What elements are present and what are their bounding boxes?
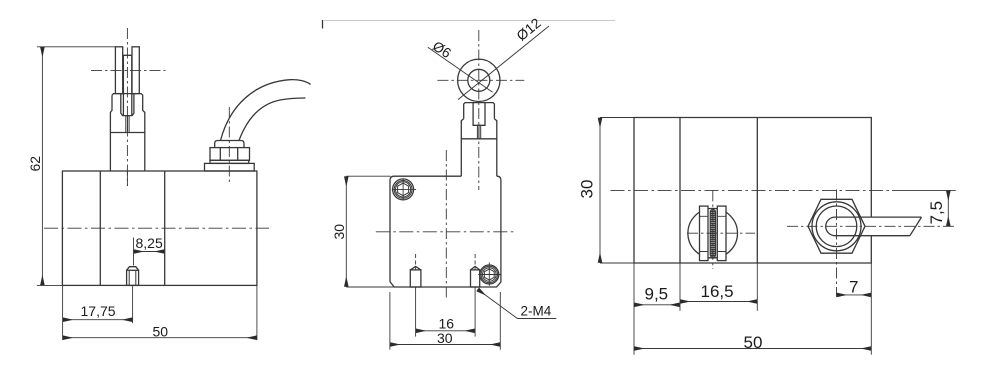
- dimension 16,5: [680, 301, 757, 303]
- middle body vertical centerline: [445, 150, 447, 300]
- right view body: [634, 118, 871, 264]
- left view body: [62, 171, 257, 285]
- middle view body: [390, 176, 501, 287]
- dimension 9,5: [634, 304, 680, 306]
- middle spring pin: [477, 125, 480, 139]
- nut circle inner: [816, 206, 857, 247]
- svg-text:7: 7: [849, 278, 858, 297]
- right body internal line 1: [679, 118, 681, 264]
- roller circle outer: [458, 59, 500, 101]
- roller vertical centerline: [712, 190, 714, 269]
- bottom plunger: [127, 267, 139, 286]
- middle left plunger: [410, 254, 421, 287]
- cable inner line: [239, 98, 306, 141]
- roller horizontal centerline: [687, 232, 755, 234]
- dimension 62: [37, 47, 115, 286]
- right prong: [132, 47, 139, 94]
- cable gland nut facets: [220, 148, 237, 161]
- nut hexagon: [808, 199, 865, 253]
- dimension 7,5: [947, 190, 949, 226]
- svg-text:50: 50: [153, 323, 169, 339]
- roller circle inner: [468, 69, 490, 91]
- label 2-M4 leader: [478, 289, 557, 318]
- roller fork left bar: [700, 206, 709, 261]
- cable outer line: [221, 80, 311, 141]
- left view horizontal centerline: [44, 227, 269, 229]
- svg-text:8,25: 8,25: [136, 235, 163, 251]
- svg-text:Ø6: Ø6: [430, 38, 455, 62]
- dimension 50 (left view): [63, 285, 257, 340]
- dimension 16: [416, 287, 476, 337]
- left body internal line 2: [164, 171, 166, 285]
- faint scan artifact line: [323, 20, 615, 22]
- roller vertical centerline: [478, 30, 480, 190]
- dimension 30 (middle bottom): [390, 292, 500, 350]
- svg-text:7,5: 7,5: [927, 201, 946, 225]
- nut circle outer: [812, 202, 861, 251]
- right view main centerline: [611, 189, 893, 191]
- bottom extension lines right view: [634, 263, 871, 355]
- dimension 30 (right): [600, 118, 634, 264]
- leader diameter 12: [458, 26, 549, 100]
- roller horizontal centerline: [437, 79, 524, 81]
- cable gland centerline: [228, 107, 230, 185]
- svg-text:16,5: 16,5: [701, 282, 734, 301]
- cable gland plate: [210, 160, 249, 163]
- cable gland base: [205, 163, 255, 171]
- fork horizontal centerline: [91, 69, 166, 71]
- actuator block step line: [110, 132, 144, 134]
- fork bar ticks: [700, 216, 727, 251]
- svg-text:17,75: 17,75: [81, 303, 116, 319]
- screw M4 top-left: [392, 179, 416, 201]
- actuator centerline stub: [126, 171, 128, 186]
- shaft: [826, 217, 922, 236]
- leader diameter 6: [428, 47, 493, 92]
- right body internal line 2: [756, 118, 758, 264]
- 7,5 top extension: [892, 189, 956, 191]
- dimension 7: [837, 294, 872, 296]
- svg-text:Ø12: Ø12: [513, 15, 544, 44]
- middle stem step line: [461, 138, 497, 140]
- dimension 30 (middle left): [346, 176, 395, 287]
- left body internal line 1: [99, 171, 101, 285]
- middle fork slot: [473, 103, 485, 126]
- dimension 50 (right): [634, 348, 871, 350]
- spring pin: [126, 116, 129, 133]
- actuator block: [110, 94, 144, 171]
- svg-text:9,5: 9,5: [645, 285, 669, 304]
- svg-text:30: 30: [331, 224, 347, 240]
- middle stem: [461, 119, 497, 177]
- roller wheel: [710, 209, 715, 257]
- actuator vertical centerline: [126, 28, 128, 186]
- cable gland nut: [210, 148, 250, 161]
- middle fork: [464, 103, 495, 119]
- plunger tip: [123, 55, 131, 115]
- svg-text:2-M4: 2-M4: [521, 304, 552, 319]
- cable gland cap: [215, 141, 244, 148]
- middle right plunger: [471, 254, 480, 287]
- svg-text:50: 50: [744, 333, 763, 352]
- roller fork right bar: [717, 206, 726, 261]
- nut vertical centerline: [836, 190, 838, 297]
- svg-text:30: 30: [578, 180, 597, 199]
- dimension 17,75: [63, 285, 133, 323]
- svg-text:30: 30: [437, 330, 453, 346]
- middle body horizontal centerline: [376, 231, 515, 233]
- stray tick mark: [322, 20, 324, 29]
- screw M4 bottom-right: [478, 262, 501, 285]
- plunger bore: [121, 94, 134, 116]
- nut horizontal centerline: [787, 225, 956, 227]
- roller boss circle: [688, 208, 738, 258]
- svg-text:62: 62: [27, 156, 43, 172]
- left prong: [115, 47, 122, 94]
- dimension 8,25: [134, 238, 165, 266]
